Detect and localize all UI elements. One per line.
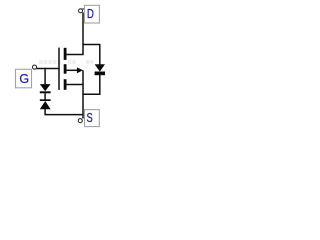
body diode D1 cathode bar xyxy=(95,72,105,76)
mosfet Q1 gate electrode xyxy=(58,48,60,90)
wire: zener chain to source xyxy=(45,109,83,115)
label D xyxy=(87,8,94,21)
watermark xyxy=(39,60,93,64)
mosfet Q1 channel dash drain xyxy=(64,48,67,60)
wire: zener tap xyxy=(44,68,46,85)
wire: D terminal down xyxy=(82,12,84,54)
svg-text:G: G xyxy=(19,72,29,86)
body diode D1 triangle xyxy=(95,64,105,71)
terminal circle D xyxy=(79,9,83,13)
zener Z2 cathode bar xyxy=(40,99,51,101)
mosfet Q1 body lead xyxy=(65,69,78,71)
svg-text:S: S xyxy=(87,112,93,126)
terminal circle S xyxy=(78,119,82,123)
wire: gate xyxy=(37,68,60,70)
wire: zener midpoint xyxy=(44,93,46,99)
terminal box D xyxy=(85,5,100,23)
zener Z1 triangle xyxy=(40,84,51,91)
mosfet Q1 arrow (p-channel) xyxy=(77,67,83,73)
mosfet Q1 channel dash body xyxy=(64,64,67,74)
zener Z1 cathode bar xyxy=(40,91,51,93)
wire: source node down to S terminal xyxy=(82,70,84,118)
wire: drain lead xyxy=(65,54,83,56)
mosfet Q1 channel dash source xyxy=(64,79,67,90)
background xyxy=(0,0,133,136)
terminal box G xyxy=(16,69,32,88)
wire: D circle to box stub xyxy=(82,8,85,10)
wire: body diode branch down xyxy=(99,44,101,65)
label G xyxy=(19,72,29,86)
wire: body diode to source node xyxy=(82,75,99,94)
wire: drain node to body diode branch xyxy=(82,44,99,46)
mosfet Q1 source lead xyxy=(65,84,83,86)
svg-text:D: D xyxy=(87,8,94,21)
terminal box S xyxy=(85,110,100,127)
terminal circle G xyxy=(32,65,36,69)
zener Z2 triangle xyxy=(40,101,51,109)
label S xyxy=(87,112,93,126)
